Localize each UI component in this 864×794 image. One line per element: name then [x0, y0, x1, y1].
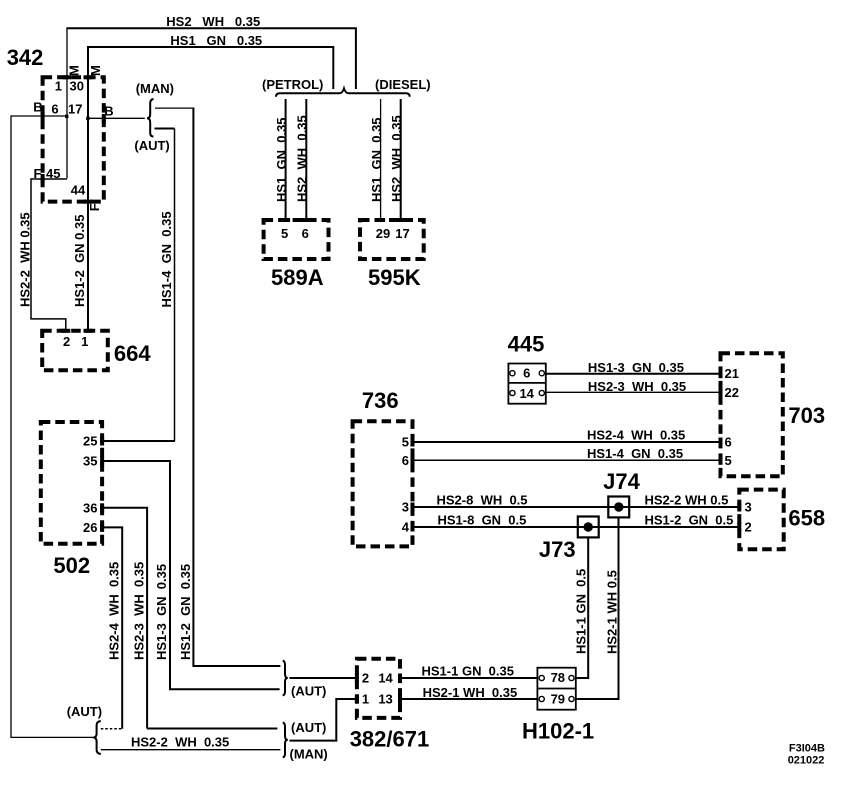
svg-text:6: 6	[725, 435, 732, 450]
svg-text:HS1-2 GN 0.35: HS1-2 GN 0.35	[178, 564, 193, 660]
svg-text:1: 1	[55, 79, 62, 94]
svg-text:664: 664	[114, 341, 151, 366]
svg-text:14: 14	[378, 671, 393, 686]
svg-text:HS2-2 WH 0.35: HS2-2 WH 0.35	[18, 212, 33, 307]
svg-text:(MAN): (MAN)	[290, 747, 328, 762]
svg-text:6: 6	[51, 101, 58, 116]
svg-text:F3I04B: F3I04B	[789, 742, 825, 754]
svg-text:13: 13	[378, 692, 392, 707]
svg-text:M: M	[88, 65, 103, 76]
svg-text:(AUT): (AUT)	[67, 704, 102, 719]
svg-text:5: 5	[402, 435, 409, 450]
svg-text:HS2-1 WH 0.35: HS2-1 WH 0.35	[423, 685, 518, 700]
svg-text:F: F	[34, 166, 42, 181]
svg-text:HS2 WH 0.35: HS2 WH 0.35	[166, 14, 260, 29]
svg-text:M: M	[67, 65, 82, 76]
svg-text:6: 6	[402, 453, 409, 468]
svg-text:17: 17	[395, 226, 409, 241]
svg-text:17: 17	[68, 101, 82, 116]
svg-text:HS1 GN 0.35: HS1 GN 0.35	[274, 117, 289, 202]
svg-text:(MAN): (MAN)	[136, 81, 174, 96]
svg-text:(AUT): (AUT)	[134, 138, 169, 153]
svg-text:HS2-1 WH 0.5: HS2-1 WH 0.5	[605, 570, 620, 654]
svg-text:44: 44	[71, 182, 86, 197]
svg-text:2: 2	[63, 334, 70, 349]
svg-text:79: 79	[551, 691, 565, 706]
svg-text:HS2-3 WH 0.35: HS2-3 WH 0.35	[132, 562, 147, 660]
svg-text:HS1-3 GN 0.35: HS1-3 GN 0.35	[154, 564, 169, 660]
svg-text:HS2 WH 0.35: HS2 WH 0.35	[389, 115, 404, 202]
svg-text:HS1-4 GN 0.35: HS1-4 GN 0.35	[587, 446, 683, 461]
svg-text:HS2-4 WH 0.35: HS2-4 WH 0.35	[107, 562, 122, 660]
svg-text:(PETROL): (PETROL)	[262, 77, 323, 92]
svg-text:36: 36	[83, 500, 97, 515]
svg-text:21: 21	[725, 366, 739, 381]
svg-text:021022: 021022	[788, 754, 825, 766]
svg-text:502: 502	[53, 553, 90, 578]
svg-text:HS1 GN 0.35: HS1 GN 0.35	[369, 117, 384, 202]
svg-text:5: 5	[725, 453, 732, 468]
svg-text:B: B	[104, 104, 113, 119]
svg-text:30: 30	[70, 79, 84, 94]
svg-text:HS1-1 GN 0.5: HS1-1 GN 0.5	[574, 569, 589, 654]
svg-text:3: 3	[402, 500, 409, 515]
svg-text:589A: 589A	[271, 265, 324, 290]
svg-text:(AUT): (AUT)	[291, 684, 326, 699]
svg-text:595K: 595K	[368, 265, 421, 290]
svg-text:HS2-2 WH 0.35: HS2-2 WH 0.35	[131, 735, 229, 750]
svg-text:HS1-2 GN 0.35: HS1-2 GN 0.35	[72, 215, 87, 308]
svg-text:658: 658	[788, 506, 825, 531]
svg-text:B: B	[33, 100, 42, 115]
svg-text:(DIESEL): (DIESEL)	[375, 77, 431, 92]
svg-text:342: 342	[7, 45, 44, 70]
svg-text:78: 78	[551, 670, 565, 685]
svg-text:4: 4	[402, 520, 410, 535]
svg-text:HS1-2 GN 0.5: HS1-2 GN 0.5	[645, 513, 734, 528]
svg-text:HS2-3 WH 0.35: HS2-3 WH 0.35	[588, 379, 686, 394]
svg-text:J73: J73	[539, 537, 576, 562]
svg-text:1: 1	[81, 334, 88, 349]
svg-text:22: 22	[725, 385, 739, 400]
svg-text:445: 445	[508, 332, 545, 357]
svg-text:25: 25	[83, 434, 97, 449]
svg-text:2: 2	[745, 520, 752, 535]
svg-text:HS1-3 GN 0.35: HS1-3 GN 0.35	[588, 360, 684, 375]
svg-text:HS1 GN 0.35: HS1 GN 0.35	[170, 33, 262, 48]
svg-text:6: 6	[302, 226, 309, 241]
svg-text:3: 3	[745, 500, 752, 515]
svg-text:1: 1	[362, 692, 369, 707]
svg-text:29: 29	[376, 226, 390, 241]
svg-text:H102-1: H102-1	[522, 719, 594, 744]
svg-text:5: 5	[281, 226, 288, 241]
svg-text:(AUT): (AUT)	[291, 720, 326, 735]
svg-text:14: 14	[519, 386, 534, 401]
svg-text:HS1-1 GN 0.35: HS1-1 GN 0.35	[422, 664, 515, 679]
svg-text:45: 45	[46, 166, 60, 181]
svg-text:6: 6	[523, 366, 530, 381]
svg-text:736: 736	[362, 388, 399, 413]
svg-text:F: F	[87, 203, 102, 211]
svg-text:703: 703	[788, 403, 825, 428]
svg-text:382/671: 382/671	[350, 727, 430, 752]
svg-text:HS2-4 WH 0.35: HS2-4 WH 0.35	[587, 428, 685, 443]
svg-text:2: 2	[362, 671, 369, 686]
svg-text:HS2-2 WH 0.5: HS2-2 WH 0.5	[645, 493, 729, 508]
svg-text:HS1-4 GN 0.35: HS1-4 GN 0.35	[159, 211, 174, 307]
svg-text:HS2-8 WH 0.5: HS2-8 WH 0.5	[437, 492, 528, 507]
svg-text:26: 26	[83, 520, 97, 535]
svg-text:HS1-8 GN 0.5: HS1-8 GN 0.5	[438, 512, 527, 527]
svg-text:HS2 WH 0.35: HS2 WH 0.35	[295, 115, 310, 202]
svg-text:35: 35	[83, 454, 97, 469]
svg-text:J74: J74	[603, 469, 640, 494]
